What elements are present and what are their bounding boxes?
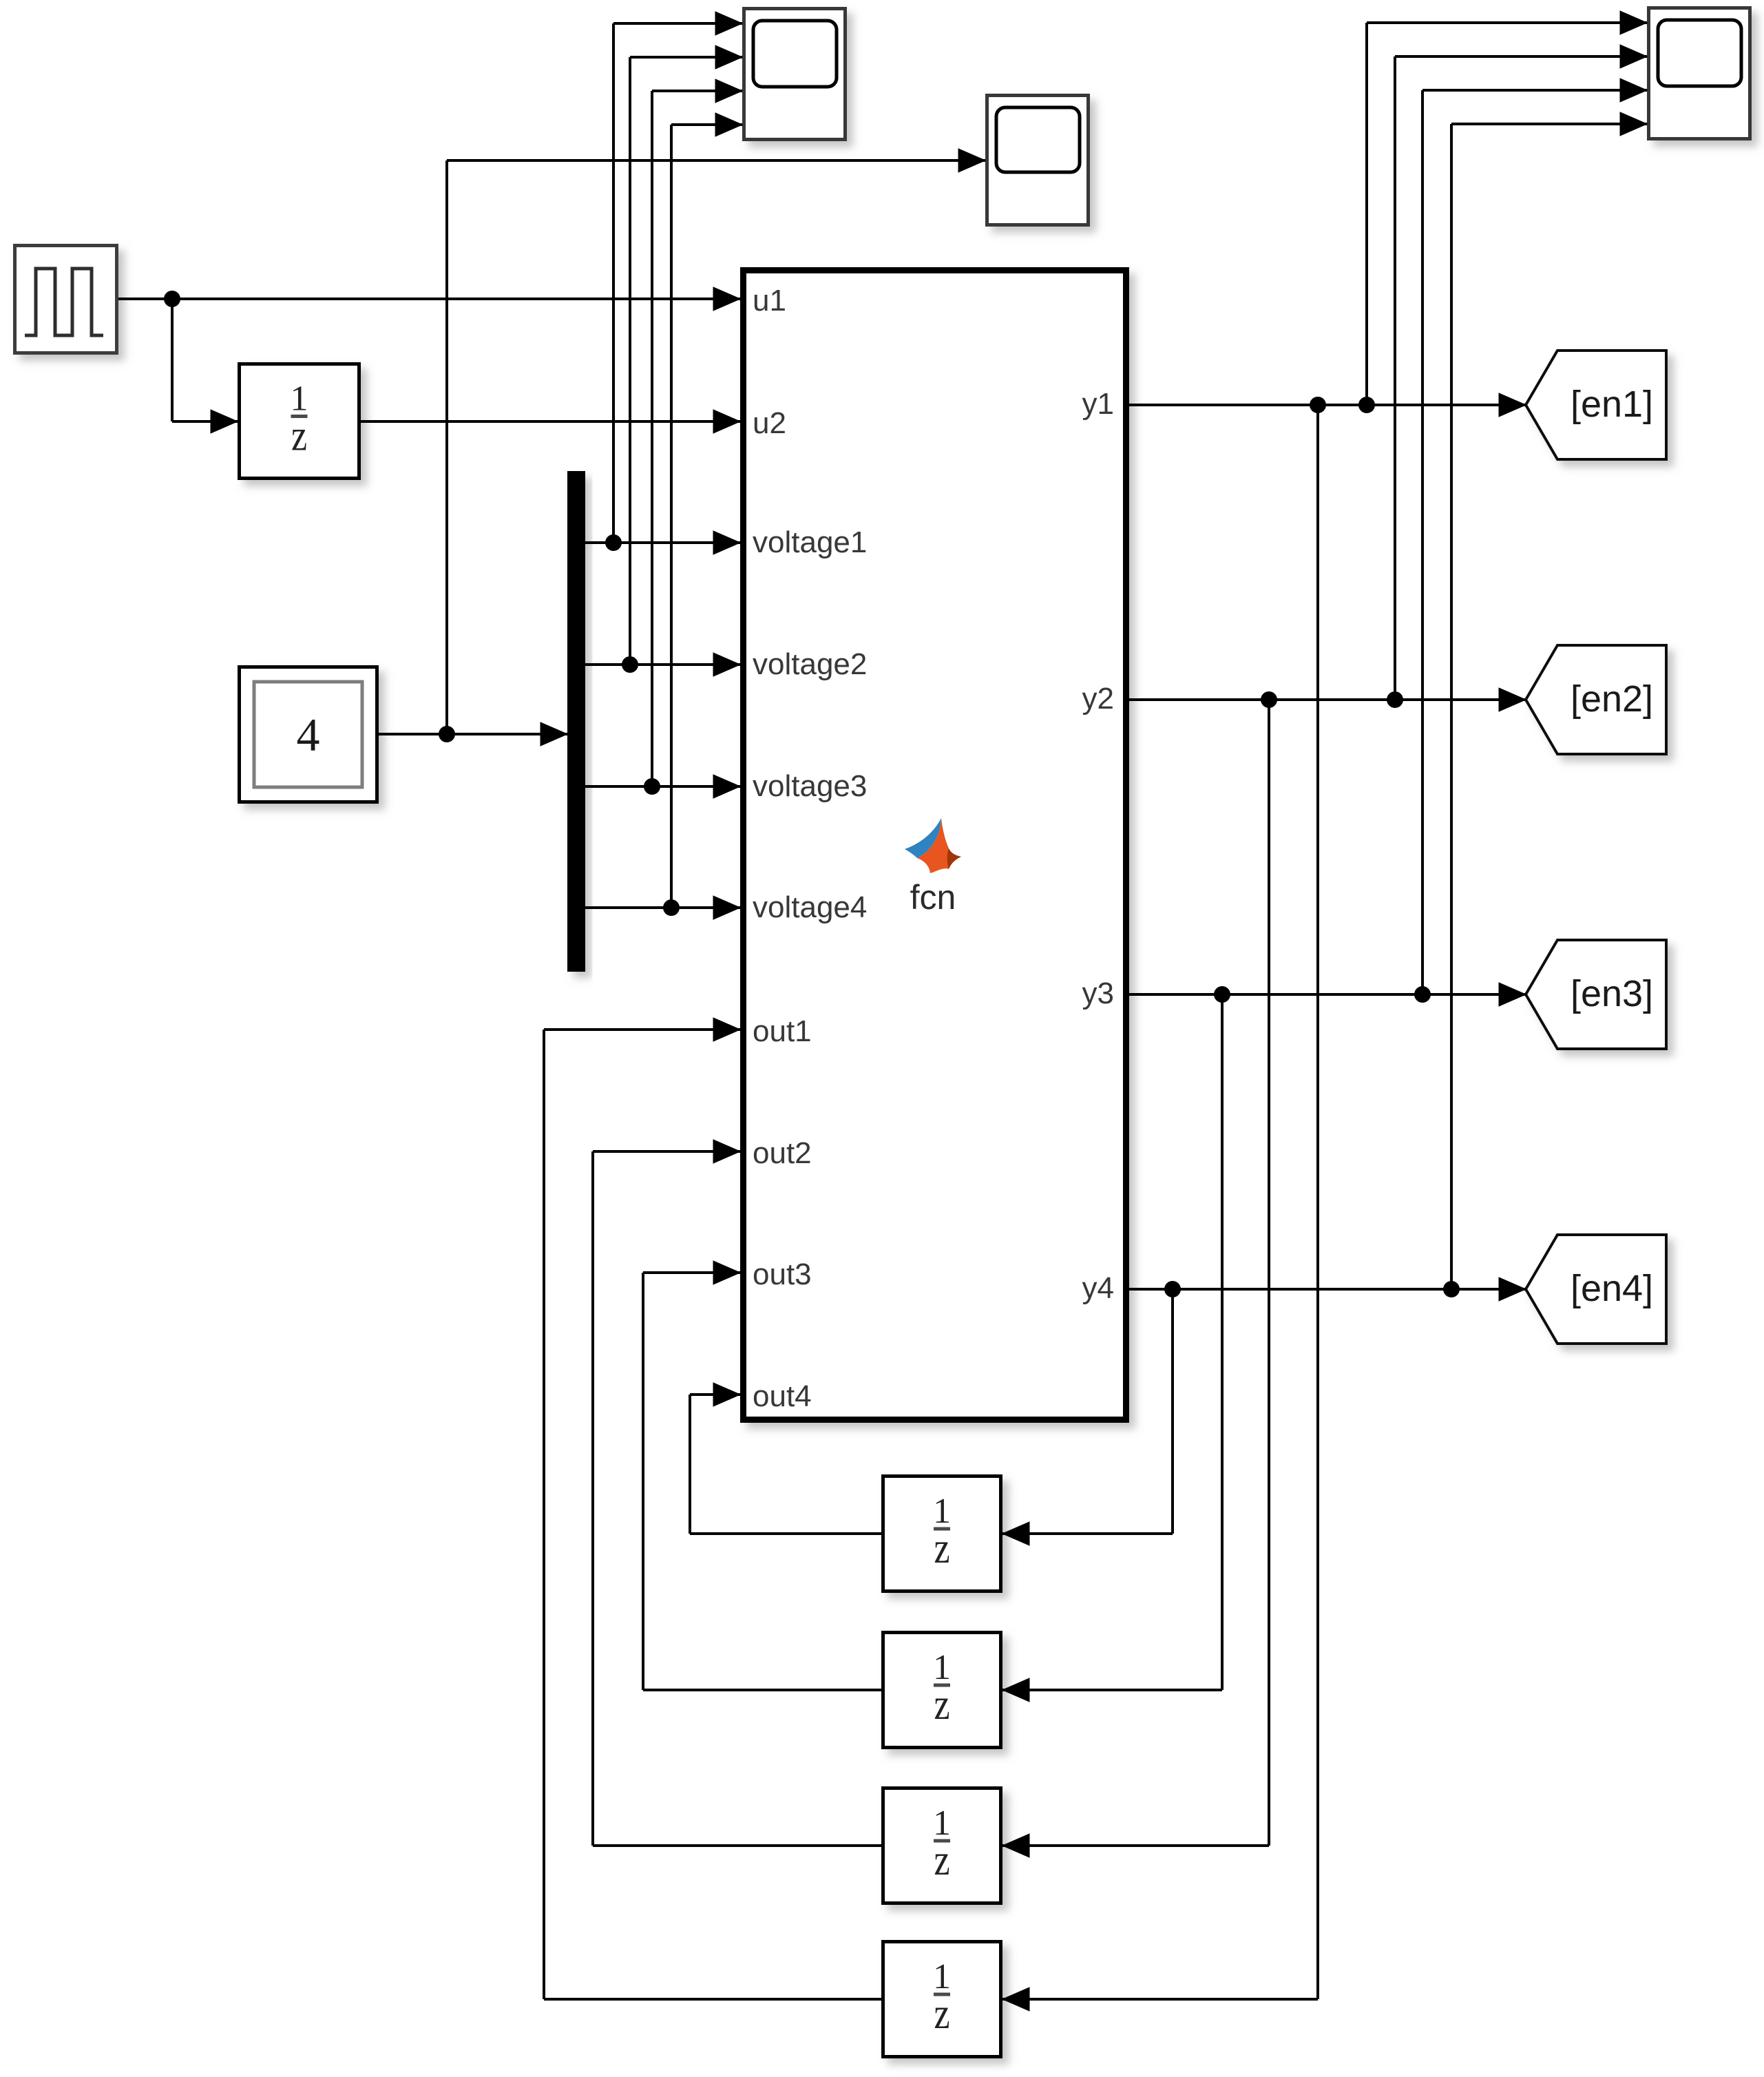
svg-text:y3: y3 [1082,977,1114,1010]
svg-text:z: z [934,1835,949,1885]
svg-text:z: z [934,1523,949,1573]
svg-text:out3: out3 [753,1257,812,1291]
svg-text:voltage1: voltage1 [753,525,867,559]
svg-text:[en1]: [en1] [1571,384,1653,425]
svg-text:[en3]: [en3] [1571,973,1653,1014]
svg-text:out4: out4 [753,1379,812,1413]
svg-text:y4: y4 [1082,1271,1114,1305]
svg-text:out1: out1 [753,1014,812,1048]
svg-text:y2: y2 [1082,682,1114,716]
svg-text:fcn: fcn [910,878,956,917]
svg-text:[en2]: [en2] [1571,678,1653,720]
svg-text:4: 4 [297,709,320,761]
svg-text:z: z [291,410,307,460]
svg-text:voltage3: voltage3 [753,769,867,803]
svg-text:y1: y1 [1082,387,1114,421]
svg-text:z: z [934,1989,949,2038]
svg-text:out2: out2 [753,1136,812,1170]
svg-text:u2: u2 [753,406,786,440]
svg-text:[en4]: [en4] [1571,1268,1653,1309]
svg-text:voltage2: voltage2 [753,647,867,681]
svg-text:z: z [934,1680,949,1729]
svg-text:u1: u1 [753,284,786,317]
svg-text:voltage4: voltage4 [753,890,867,924]
